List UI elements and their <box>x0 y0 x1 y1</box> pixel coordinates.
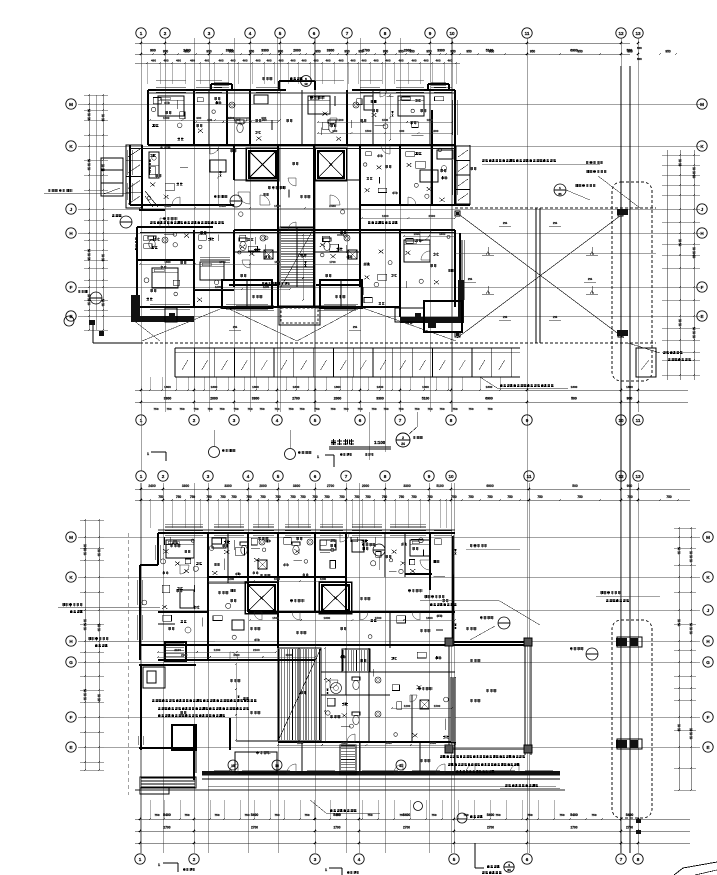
svg-text:1500: 1500 <box>434 704 441 708</box>
svg-text:750: 750 <box>414 407 419 411</box>
svg-text:M: M <box>69 535 73 540</box>
svg-text:3300: 3300 <box>293 484 301 488</box>
arcade note - upper plan <box>480 343 691 388</box>
svg-text:950: 950 <box>398 50 404 54</box>
svg-text:3: 3 <box>233 418 236 423</box>
svg-text:750: 750 <box>495 813 500 817</box>
leader detail callout bottom - lower plan <box>475 843 514 874</box>
dimension chain bottom - lower plan <box>135 800 690 847</box>
axis bubbles top row - upper plan <box>136 28 643 38</box>
axis bubbles bottom row - upper plan <box>136 415 643 425</box>
svg-text:750: 750 <box>487 495 493 499</box>
svg-text:E: E <box>69 745 72 750</box>
svg-text:1200: 1200 <box>163 116 170 120</box>
svg-text:750: 750 <box>559 813 564 817</box>
svg-text:950: 950 <box>278 50 284 54</box>
svg-text:4: 4 <box>358 857 361 862</box>
cloud revision mark corner <box>674 862 717 875</box>
svg-text:750: 750 <box>231 495 237 499</box>
grid row lines - upper plan <box>78 104 700 316</box>
svg-text:750: 750 <box>343 407 348 411</box>
svg-text:F: F <box>701 285 704 290</box>
elevator shaft left - lower plan <box>245 582 278 614</box>
dimension chain right - lower plan <box>674 527 696 791</box>
svg-text:1200: 1200 <box>432 129 439 133</box>
svg-text:2000: 2000 <box>210 397 218 401</box>
interior detail texture - upper plan <box>144 96 454 305</box>
svg-text:750: 750 <box>314 407 319 411</box>
svg-text:3300: 3300 <box>182 484 190 488</box>
svg-text:950: 950 <box>358 50 364 54</box>
axis bubbles left col - lower plan <box>66 532 76 752</box>
svg-text:900: 900 <box>332 129 337 133</box>
svg-text:J: J <box>701 207 704 212</box>
svg-text:9: 9 <box>526 418 529 423</box>
svg-text:2700: 2700 <box>570 826 577 830</box>
svg-text:750: 750 <box>330 407 335 411</box>
svg-text:10: 10 <box>448 474 454 479</box>
svg-text:750: 750 <box>591 813 596 817</box>
svg-text:750: 750 <box>439 407 444 411</box>
axis bubbles right col - upper plan <box>697 99 707 321</box>
svg-text:750: 750 <box>274 813 279 817</box>
room labels - lower plan <box>168 537 497 763</box>
svg-text:460: 460 <box>398 59 403 63</box>
svg-text:3: 3 <box>314 857 317 862</box>
svg-text:2100: 2100 <box>286 653 293 657</box>
svg-text:750: 750 <box>304 813 309 817</box>
svg-text:2480: 2480 <box>329 204 336 208</box>
entrance hall columns - lower plan <box>445 638 532 753</box>
svg-text:5400: 5400 <box>626 813 634 817</box>
svg-text:950: 950 <box>665 50 671 54</box>
svg-text:750: 750 <box>335 813 340 817</box>
svg-text:2700: 2700 <box>403 826 410 830</box>
svg-text:750: 750 <box>244 813 249 817</box>
svg-text:3300: 3300 <box>437 49 445 53</box>
svg-text:3300: 3300 <box>261 49 269 53</box>
drawing title - upper plan <box>329 439 391 456</box>
svg-text:750: 750 <box>357 407 362 411</box>
svg-text:16: 16 <box>275 764 279 768</box>
expansion joint strip - upper plan <box>612 66 652 853</box>
svg-text:950: 950 <box>206 50 212 54</box>
svg-text:2700: 2700 <box>251 826 258 830</box>
elevator shaft right - lower plan <box>319 582 352 614</box>
dimension chain top - upper plan <box>135 38 677 84</box>
svg-text:460: 460 <box>338 59 343 63</box>
svg-text:1500: 1500 <box>274 204 281 208</box>
svg-text:750: 750 <box>577 495 583 499</box>
svg-text:950: 950 <box>383 50 389 54</box>
svg-text:J: J <box>70 207 73 212</box>
svg-text:750: 750 <box>184 813 189 817</box>
svg-text:2100: 2100 <box>181 653 188 657</box>
svg-text:750: 750 <box>260 495 266 499</box>
detail bubbles - lower plan <box>470 591 660 660</box>
interior dimensions - lower plan <box>157 535 456 746</box>
svg-text:1500: 1500 <box>385 741 392 745</box>
svg-text:6900: 6900 <box>486 484 494 488</box>
svg-text:950: 950 <box>344 50 350 54</box>
svg-text:950: 950 <box>627 50 633 54</box>
svg-text:J: J <box>707 608 710 613</box>
drain line - lower plan <box>127 533 129 795</box>
svg-text:1800: 1800 <box>422 385 429 389</box>
dimension chain right - upper plan <box>662 150 700 380</box>
svg-text:460: 460 <box>350 59 355 63</box>
svg-text:3: 3 <box>207 474 210 479</box>
svg-text:750: 750 <box>354 495 360 499</box>
slope marks - upper plan <box>229 221 656 330</box>
svg-text:11: 11 <box>636 418 641 423</box>
callout leaders - upper plan <box>78 159 640 304</box>
svg-text:8: 8 <box>637 857 640 862</box>
left elevation annotation - upper plan <box>44 189 130 193</box>
svg-text:750: 750 <box>468 407 473 411</box>
svg-text:1700: 1700 <box>219 260 226 264</box>
elevator shaft left - upper plan <box>246 148 279 181</box>
svg-text:460: 460 <box>447 59 452 63</box>
svg-text:750: 750 <box>290 495 296 499</box>
svg-text:460: 460 <box>435 59 440 63</box>
svg-text:750: 750 <box>411 495 417 499</box>
svg-text:2000: 2000 <box>334 397 342 401</box>
svg-text:2400: 2400 <box>233 653 240 657</box>
courtyard slab with cross bracing - upper plan <box>64 208 656 471</box>
grid column lines - lower plan <box>140 483 638 853</box>
svg-text:950: 950 <box>249 50 255 54</box>
svg-text:1500: 1500 <box>274 577 281 581</box>
svg-text:2%: 2% <box>503 315 508 319</box>
svg-text:950: 950 <box>466 50 472 54</box>
svg-text:460: 460 <box>230 59 235 63</box>
svg-text:750: 750 <box>367 813 372 817</box>
svg-text:7: 7 <box>345 474 348 479</box>
west porch - lower plan <box>139 642 290 794</box>
svg-text:750: 750 <box>666 495 672 499</box>
svg-text:950: 950 <box>577 50 583 54</box>
svg-text:460: 460 <box>313 59 318 63</box>
svg-text:5400: 5400 <box>251 813 259 817</box>
svg-text:950: 950 <box>409 50 415 54</box>
svg-text:750: 750 <box>275 495 281 499</box>
svg-text:1: 1 <box>140 474 143 479</box>
svg-text:460: 460 <box>301 59 306 63</box>
svg-text:E: E <box>706 745 709 750</box>
svg-text:1200: 1200 <box>263 285 270 289</box>
svg-text:F: F <box>70 285 73 290</box>
svg-text:460: 460 <box>190 59 195 63</box>
svg-text:750: 750 <box>507 495 513 499</box>
svg-text:750: 750 <box>383 407 388 411</box>
svg-text:F: F <box>70 715 73 720</box>
svg-text:2%: 2% <box>233 325 238 329</box>
svg-text:M: M <box>69 102 73 107</box>
svg-text:2700: 2700 <box>626 826 633 830</box>
svg-text:460: 460 <box>278 59 283 63</box>
svg-text:750: 750 <box>451 495 457 499</box>
svg-text:1800: 1800 <box>486 385 493 389</box>
svg-text:500: 500 <box>572 484 578 488</box>
svg-text:460: 460 <box>361 59 366 63</box>
walls - upper plan <box>130 81 470 533</box>
staircase - upper plan <box>280 227 314 287</box>
svg-text:460: 460 <box>204 59 209 63</box>
svg-text:24: 24 <box>507 868 511 872</box>
interior detail texture - lower plan <box>142 537 449 739</box>
svg-text:750: 750 <box>487 407 492 411</box>
axis bubbles top row - lower plan <box>136 471 643 481</box>
svg-text:9: 9 <box>429 31 432 36</box>
svg-text:750: 750 <box>233 407 238 411</box>
svg-text:1500: 1500 <box>164 260 171 264</box>
svg-text:2700: 2700 <box>333 826 340 830</box>
svg-text:2000: 2000 <box>293 49 301 53</box>
svg-text:750: 750 <box>371 407 376 411</box>
svg-text:2: 2 <box>193 857 196 862</box>
svg-text:1200: 1200 <box>337 118 344 122</box>
svg-text:G: G <box>706 660 710 665</box>
walls - lower plan <box>140 530 531 773</box>
svg-text:460: 460 <box>373 59 378 63</box>
svg-text:750: 750 <box>288 407 293 411</box>
svg-text:460: 460 <box>255 59 260 63</box>
svg-text:15: 15 <box>231 764 235 768</box>
svg-text:460: 460 <box>163 59 168 63</box>
axis bubbles right col - lower plan <box>703 532 713 752</box>
svg-text:750: 750 <box>399 813 404 817</box>
svg-text:4: 4 <box>276 418 279 423</box>
fixtures - lower plan <box>166 538 430 725</box>
svg-text:5100: 5100 <box>436 484 444 488</box>
svg-text:9: 9 <box>428 474 431 479</box>
svg-text:2%: 2% <box>468 277 473 281</box>
notes paragraph bottom right - lower plan <box>414 755 561 823</box>
dimension chain bottom - upper plan <box>135 377 688 412</box>
svg-text:1:100: 1:100 <box>374 440 386 445</box>
svg-text:6: 6 <box>314 474 317 479</box>
svg-text:1500: 1500 <box>341 741 348 745</box>
svg-text:2100: 2100 <box>253 648 260 652</box>
svg-text:6: 6 <box>313 31 316 36</box>
svg-text:750: 750 <box>299 407 304 411</box>
left balcony stack - upper plan <box>101 145 158 208</box>
svg-text:750: 750 <box>427 407 432 411</box>
svg-text:1200: 1200 <box>404 704 411 708</box>
svg-text:8: 8 <box>384 474 387 479</box>
door swings - lower plan <box>180 533 519 773</box>
svg-text:1500: 1500 <box>164 204 171 208</box>
svg-text:750: 750 <box>214 813 219 817</box>
elevator shaft right - upper plan <box>315 148 347 181</box>
svg-text:750: 750 <box>190 495 196 499</box>
svg-text:950: 950 <box>450 50 456 54</box>
svg-text:5: 5 <box>453 857 456 862</box>
svg-text:M: M <box>706 535 710 540</box>
grid column lines - upper plan <box>141 38 638 483</box>
svg-text:750: 750 <box>382 495 388 499</box>
svg-text:13: 13 <box>635 474 641 479</box>
svg-text:2100: 2100 <box>174 648 181 652</box>
svg-text:500: 500 <box>571 397 577 401</box>
svg-text:950: 950 <box>229 50 235 54</box>
svg-text:750: 750 <box>193 407 198 411</box>
svg-text:2480: 2480 <box>219 204 226 208</box>
svg-text:21: 21 <box>558 192 562 196</box>
svg-text:M: M <box>700 102 704 107</box>
svg-text:5: 5 <box>277 474 280 479</box>
expansion joint strip - lower plan <box>612 620 652 834</box>
svg-text:1800: 1800 <box>439 232 446 236</box>
svg-text:2700: 2700 <box>487 826 494 830</box>
svg-text:7: 7 <box>620 857 623 862</box>
section markers between plans <box>147 412 423 467</box>
svg-text:460: 460 <box>411 59 416 63</box>
window symbols - upper plan <box>128 80 464 310</box>
svg-text:3: 3 <box>208 31 211 36</box>
svg-text:750: 750 <box>220 495 226 499</box>
svg-text:750: 750 <box>154 813 159 817</box>
svg-text:750: 750 <box>179 407 184 411</box>
svg-text:460: 460 <box>423 59 428 63</box>
interior dimensions - upper plan <box>139 94 456 301</box>
svg-text:460: 460 <box>325 59 330 63</box>
svg-text:1500: 1500 <box>430 741 437 745</box>
svg-text:7: 7 <box>399 418 402 423</box>
svg-text:950: 950 <box>163 50 169 54</box>
svg-text:2%: 2% <box>503 221 508 225</box>
svg-text:460: 460 <box>176 59 181 63</box>
svg-text:1200: 1200 <box>228 577 235 581</box>
fixtures and furniture - upper plan <box>148 95 453 288</box>
svg-text:750: 750 <box>452 407 457 411</box>
general notes paragraph - lower plan <box>152 699 257 717</box>
svg-text:11: 11 <box>525 31 530 36</box>
main staircase - lower plan <box>278 648 321 741</box>
svg-text:750: 750 <box>158 495 164 499</box>
svg-text:1800: 1800 <box>252 385 259 389</box>
svg-text:900: 900 <box>399 129 404 133</box>
svg-text:12: 12 <box>618 474 624 479</box>
parapet lower-right - upper plan <box>400 280 464 323</box>
svg-text:2700: 2700 <box>327 484 335 488</box>
dimension chain left - upper plan <box>84 94 108 331</box>
svg-text:1800: 1800 <box>164 385 171 389</box>
svg-text:1700: 1700 <box>329 260 336 264</box>
svg-text:1500: 1500 <box>365 129 372 133</box>
svg-text:4: 4 <box>249 31 252 36</box>
svg-text:750: 750 <box>247 407 252 411</box>
svg-text:2%: 2% <box>588 277 593 281</box>
svg-text:6: 6 <box>359 418 362 423</box>
svg-text:1500: 1500 <box>375 616 382 620</box>
secondary steps - lower plan <box>342 649 370 672</box>
svg-text:460: 460 <box>151 59 156 63</box>
svg-text:1500: 1500 <box>382 118 389 122</box>
entry steps - lower plan <box>340 745 356 775</box>
intermediate axis bubbles - lower plan <box>228 760 406 770</box>
svg-text:G: G <box>69 660 73 665</box>
svg-text:750: 750 <box>365 495 371 499</box>
window symbols - lower plan <box>138 531 553 775</box>
svg-text:F: F <box>707 715 710 720</box>
svg-text:3300: 3300 <box>252 397 260 401</box>
svg-text:2000: 2000 <box>362 484 370 488</box>
svg-text:1: 1 <box>139 857 142 862</box>
svg-text:8: 8 <box>450 418 453 423</box>
svg-text:750: 750 <box>207 407 212 411</box>
svg-text:6900: 6900 <box>485 397 493 401</box>
svg-text:3300: 3300 <box>224 484 232 488</box>
ground arcade band - upper plan <box>175 348 656 377</box>
svg-text:1200: 1200 <box>382 214 389 218</box>
svg-text:750: 750 <box>431 813 436 817</box>
svg-text:950: 950 <box>530 50 536 54</box>
svg-text:1500: 1500 <box>228 116 235 120</box>
svg-text:900: 900 <box>261 116 266 120</box>
svg-text:1500: 1500 <box>272 616 279 620</box>
grid row lines - lower plan <box>78 537 700 747</box>
svg-text:3300: 3300 <box>403 484 411 488</box>
svg-text:460: 460 <box>385 59 390 63</box>
svg-text:8: 8 <box>384 31 387 36</box>
svg-text:950: 950 <box>315 50 321 54</box>
svg-text:2%: 2% <box>353 325 358 329</box>
heavy entrance wall - lower plan <box>135 771 565 790</box>
svg-text:2: 2 <box>164 31 167 36</box>
dimension chain left - lower plan <box>80 519 104 771</box>
svg-text:750: 750 <box>166 407 171 411</box>
svg-text:1800: 1800 <box>324 616 331 620</box>
svg-text:6: 6 <box>526 857 529 862</box>
svg-text:750: 750 <box>312 495 318 499</box>
svg-text:2000: 2000 <box>259 484 267 488</box>
svg-text:750: 750 <box>206 495 212 499</box>
svg-text:12: 12 <box>304 82 308 86</box>
svg-text:1500: 1500 <box>297 741 304 745</box>
dimension chain top - lower plan <box>135 484 690 528</box>
svg-text:12: 12 <box>618 31 624 36</box>
svg-text:950: 950 <box>489 50 495 54</box>
svg-text:750: 750 <box>427 495 433 499</box>
svg-text:10: 10 <box>449 31 455 36</box>
svg-text:900: 900 <box>627 397 633 401</box>
svg-text:750: 750 <box>246 495 252 499</box>
svg-text:2: 2 <box>402 436 404 440</box>
svg-text:900: 900 <box>150 49 156 53</box>
axis bubbles bottom row - lower plan <box>135 854 643 864</box>
bottom balconies - upper plan <box>222 280 362 309</box>
svg-text:460: 460 <box>290 59 295 63</box>
svg-text:2700: 2700 <box>292 397 300 401</box>
section markers bottom <box>158 862 359 875</box>
svg-text:2400: 2400 <box>148 484 156 488</box>
svg-text:2%: 2% <box>553 315 558 319</box>
svg-text:5: 5 <box>279 31 282 36</box>
svg-text:460: 460 <box>266 59 271 63</box>
svg-text:750: 750 <box>259 407 264 411</box>
svg-text:2: 2 <box>193 418 196 423</box>
canopy callout - upper plan <box>290 76 312 87</box>
svg-text:1800: 1800 <box>211 385 218 389</box>
svg-text:13: 13 <box>635 31 641 36</box>
svg-text:950: 950 <box>426 50 432 54</box>
parapet lower-left - upper plan <box>131 295 194 322</box>
svg-text:4: 4 <box>247 474 250 479</box>
svg-text:1800: 1800 <box>426 616 433 620</box>
svg-text:2400: 2400 <box>428 214 435 218</box>
